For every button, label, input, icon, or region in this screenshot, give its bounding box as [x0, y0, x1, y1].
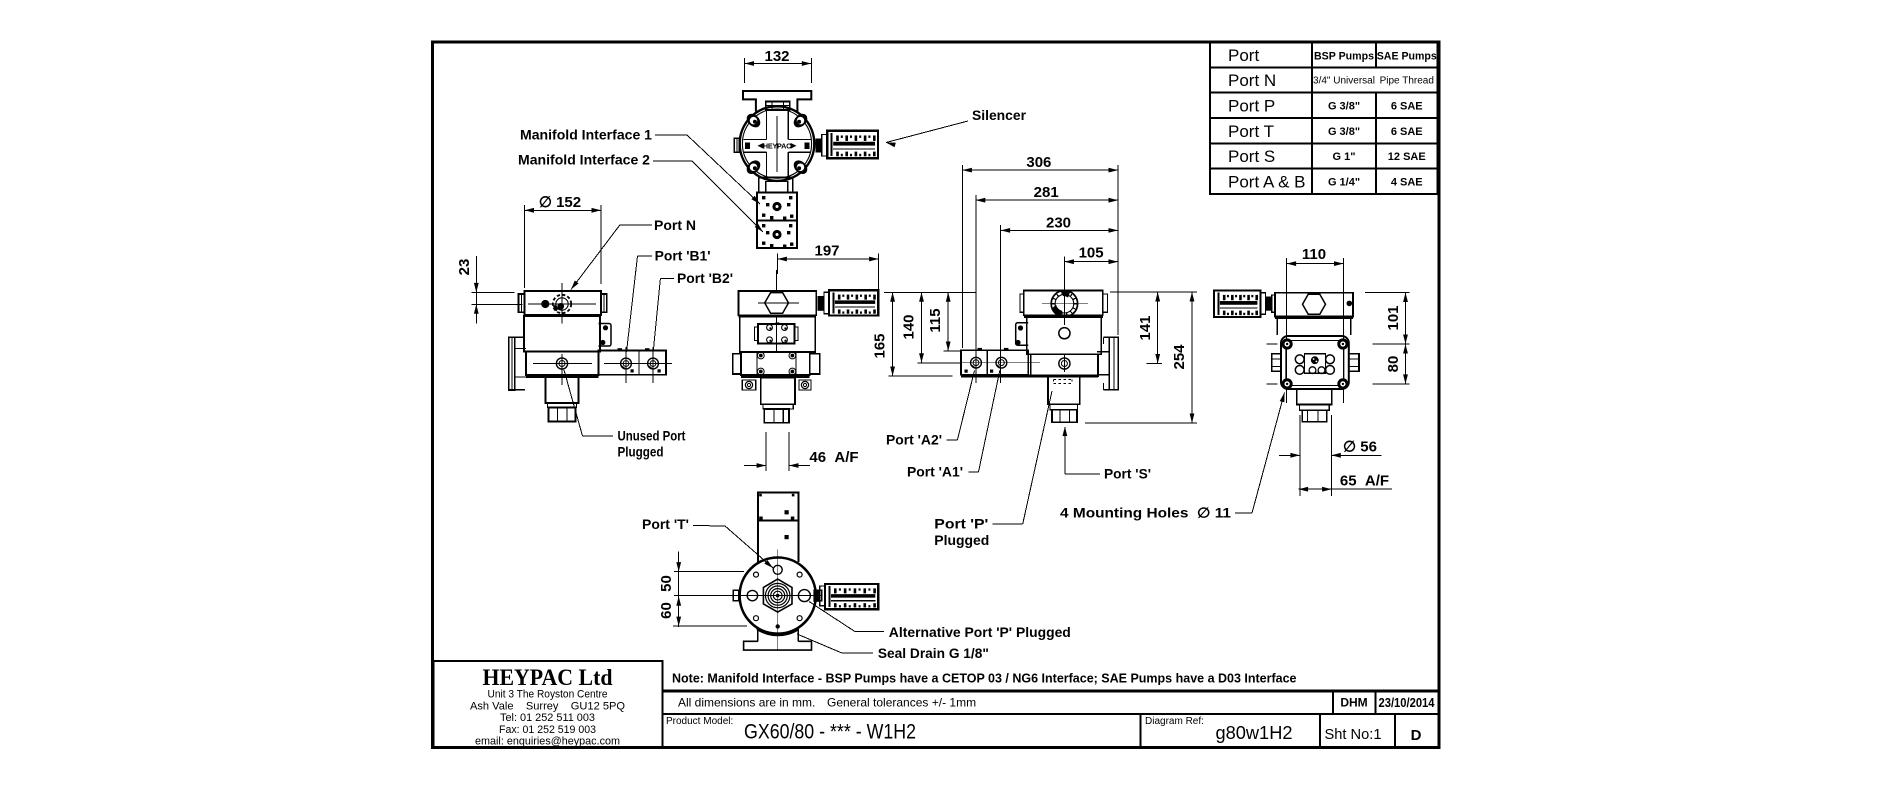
svg-text:6 SAE: 6 SAE [1391, 126, 1423, 138]
svg-text:Port 'P': Port 'P' [934, 516, 988, 532]
svg-text:BSP Pumps: BSP Pumps [1314, 50, 1374, 62]
svg-text:Port 'A1': Port 'A1' [907, 464, 963, 480]
svg-text:Alternative Port 'P' Plugged: Alternative Port 'P' Plugged [889, 624, 1071, 640]
svg-text:All dimensions are in mm.: All dimensions are in mm. [678, 696, 815, 710]
svg-text:Fax: 01 252 519 003: Fax: 01 252 519 003 [499, 724, 596, 736]
svg-text:HEYPAC: HEYPAC [763, 141, 791, 150]
svg-text:Seal Drain G 1/8": Seal Drain G 1/8" [878, 645, 989, 661]
svg-text:Unused Port: Unused Port [618, 428, 686, 444]
svg-text:Port P: Port P [1228, 96, 1275, 115]
svg-text:D: D [1411, 727, 1422, 744]
svg-text:Manifold Interface 1: Manifold Interface 1 [520, 127, 652, 143]
svg-text:G 3/8": G 3/8" [1328, 126, 1360, 138]
svg-text:12 SAE: 12 SAE [1388, 151, 1426, 163]
svg-text:Port S: Port S [1228, 147, 1275, 166]
svg-text:SAE Pumps: SAE Pumps [1377, 50, 1437, 62]
svg-text:Port 'B2': Port 'B2' [677, 270, 733, 286]
svg-text:Port 'A2': Port 'A2' [886, 432, 942, 448]
svg-text:Manifold Interface 2: Manifold Interface 2 [518, 152, 650, 168]
svg-text:Sht No:1: Sht No:1 [1325, 726, 1382, 743]
svg-text:50: 50 [658, 575, 675, 592]
svg-text:110: 110 [1302, 246, 1326, 263]
svg-text:G 1/4": G 1/4" [1328, 176, 1360, 188]
svg-text:Product Model:: Product Model: [666, 716, 733, 727]
svg-text:101: 101 [1385, 305, 1402, 330]
svg-text:G 3/8": G 3/8" [1328, 100, 1360, 112]
svg-text:306: 306 [1026, 154, 1051, 171]
svg-text:HEYPAC Ltd: HEYPAC Ltd [483, 665, 613, 690]
svg-text:Port N: Port N [654, 217, 696, 233]
svg-text:197: 197 [814, 243, 839, 260]
svg-text:g80w1H2: g80w1H2 [1216, 723, 1293, 743]
svg-text:132: 132 [764, 48, 789, 65]
svg-text:Port 'B1': Port 'B1' [655, 248, 711, 264]
svg-text:∅ 152: ∅ 152 [539, 194, 581, 211]
svg-text:Plugged: Plugged [618, 444, 664, 460]
svg-text:23: 23 [456, 259, 473, 276]
svg-text:Port T: Port T [1228, 122, 1274, 141]
svg-text:46 A/F: 46 A/F [809, 449, 858, 466]
svg-text:Port A & B: Port A & B [1228, 172, 1306, 191]
svg-text:230: 230 [1046, 214, 1071, 231]
svg-text:GX60/80 - *** - W1H2: GX60/80 - *** - W1H2 [744, 721, 916, 744]
svg-text:Unit 3 The Royston Centre: Unit 3 The Royston Centre [488, 689, 608, 701]
svg-text:G 1": G 1" [1333, 151, 1356, 163]
svg-text:Port 'S': Port 'S' [1104, 466, 1151, 482]
svg-text:Plugged: Plugged [934, 532, 989, 548]
svg-text:Ash Vale Surrey GU12 5PQ: Ash Vale Surrey GU12 5PQ [470, 700, 625, 712]
svg-text:Silencer: Silencer [972, 107, 1027, 123]
svg-text:Diagram Ref:: Diagram Ref: [1145, 716, 1204, 727]
svg-text:Pipe Thread: Pipe Thread [1380, 76, 1434, 87]
svg-text:140: 140 [901, 314, 918, 339]
svg-text:Port: Port [1228, 46, 1259, 65]
svg-text:165: 165 [872, 333, 889, 358]
svg-text:Port N: Port N [1228, 71, 1276, 90]
svg-text:General tolerances +/- 1mm: General tolerances +/- 1mm [827, 696, 976, 710]
svg-text:3/4" Universal: 3/4" Universal [1313, 76, 1375, 87]
svg-text:4 Mounting Holes ∅ 11: 4 Mounting Holes ∅ 11 [1060, 505, 1231, 521]
svg-text:60: 60 [658, 602, 675, 619]
svg-text:DHM: DHM [1340, 696, 1367, 710]
svg-text:281: 281 [1034, 184, 1059, 201]
svg-text:email: enquiries@heypac.com: email: enquiries@heypac.com [475, 736, 620, 748]
svg-text:105: 105 [1079, 245, 1104, 262]
svg-text:254: 254 [1171, 344, 1188, 370]
svg-text:∅ 56: ∅ 56 [1343, 439, 1377, 456]
svg-text:141: 141 [1137, 315, 1154, 340]
svg-text:4 SAE: 4 SAE [1391, 176, 1423, 188]
svg-text:Port 'T': Port 'T' [642, 516, 689, 532]
svg-text:65 A/F: 65 A/F [1340, 473, 1389, 490]
svg-text:23/10/2014: 23/10/2014 [1379, 696, 1435, 710]
svg-text:Note: Manifold Interface - BSP: Note: Manifold Interface - BSP Pumps hav… [672, 672, 1297, 686]
svg-text:6 SAE: 6 SAE [1391, 100, 1423, 112]
svg-text:Tel: 01 252 511 003: Tel: 01 252 511 003 [500, 712, 595, 724]
svg-text:80: 80 [1385, 356, 1402, 373]
svg-text:115: 115 [927, 308, 944, 332]
